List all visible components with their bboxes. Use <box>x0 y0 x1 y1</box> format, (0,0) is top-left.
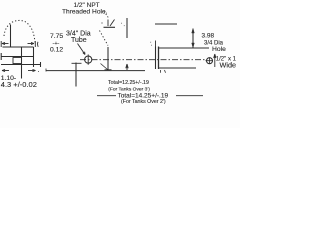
pivot circle vertical axis <box>87 54 89 64</box>
left leader of line 3 <box>97 95 116 97</box>
svg-text:4.3 +/-0.02: 4.3 +/-0.02 <box>1 80 37 89</box>
switch body right vertical <box>33 47 35 67</box>
svg-text:3/4 Dia: 3/4 Dia <box>204 40 224 46</box>
svg-text:(For Tanks Over 3'): (For Tanks Over 3') <box>108 86 150 92</box>
mounting plate right end tick <box>40 62 42 67</box>
small marks under tube near flange <box>161 70 166 73</box>
switch body left tick <box>0 53 2 60</box>
flange double vertical <box>155 47 157 70</box>
pivot circle on centreline <box>85 56 92 63</box>
svg-text:-+-: -+- <box>53 41 60 47</box>
leader arrow from Tube label to tube <box>78 44 86 55</box>
fitting foot tick <box>105 69 112 71</box>
svg-text:Total=12.25+/-.19: Total=12.25+/-.19 <box>108 80 149 86</box>
float dome (phantom dotted outline) <box>4 20 35 42</box>
float stem vertical line <box>10 25 12 47</box>
lower extension vertical with tick <box>75 63 77 87</box>
right leader of line 3 <box>176 95 203 97</box>
liquid level / phantom top line <box>155 23 177 25</box>
long dimension line under tube <box>46 70 145 72</box>
leader (dotted) from NPT note, lower segment to fitting <box>100 31 109 46</box>
svg-text:0.12: 0.12 <box>50 47 63 54</box>
svg-text:3.98: 3.98 <box>202 32 215 39</box>
vertical arrow at slot <box>214 54 216 67</box>
NPT leader small symbol cluster <box>102 20 116 28</box>
svg-text:Hole: Hole <box>212 46 226 53</box>
svg-text:7.75: 7.75 <box>50 33 63 40</box>
width dimension arrows (upper row) <box>1 41 38 47</box>
svg-text:Threaded Hole.: Threaded Hole. <box>62 8 108 15</box>
tube top line <box>159 47 210 49</box>
svg-text:Tube: Tube <box>71 37 87 44</box>
fitting face vertical <box>107 47 109 70</box>
svg-text:(For Tanks Over 2'): (For Tanks Over 2') <box>121 99 166 105</box>
fitting lower-left diagonal <box>101 64 108 70</box>
vertical dimension line 3.98 with arrows <box>192 29 194 48</box>
centreline (dash-dot) <box>80 59 206 61</box>
up arrow on long dimension line <box>126 64 128 70</box>
switch body top plate line <box>3 46 34 48</box>
small tick at left end of long line <box>45 69 47 72</box>
inner box on body <box>13 58 22 64</box>
svg-text:Total=14.25+/-.19: Total=14.25+/-.19 <box>118 92 169 99</box>
svg-text:3/4" Dia: 3/4" Dia <box>66 30 91 37</box>
end hole cross dash <box>206 58 214 64</box>
tube bottom line <box>159 67 197 69</box>
end hole target circle <box>207 58 213 64</box>
leader (dotted) from NPT note, upper segment <box>104 12 109 19</box>
switch body centre vertical <box>21 47 23 79</box>
switch body mid horizontal <box>1 56 34 58</box>
lower dimension arrows row <box>2 69 39 71</box>
svg-text:Wide: Wide <box>220 60 237 69</box>
extension line (vertical) at x=127 <box>126 18 128 38</box>
mounting plate bottom line <box>1 64 41 66</box>
small mark above flange <box>155 41 157 47</box>
